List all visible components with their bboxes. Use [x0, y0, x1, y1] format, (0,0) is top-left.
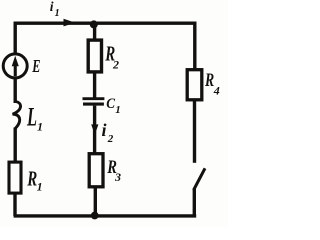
svg-text:1: 1 [37, 120, 43, 134]
svg-text:2: 2 [112, 57, 119, 71]
svg-text:L: L [26, 102, 37, 131]
svg-text:1: 1 [55, 8, 60, 19]
svg-text:2: 2 [107, 133, 114, 145]
svg-text:R: R [204, 70, 214, 91]
svg-text:i: i [50, 0, 54, 14]
svg-text:1: 1 [37, 180, 43, 194]
svg-text:1: 1 [115, 104, 121, 116]
svg-text:E: E [32, 56, 41, 76]
svg-text:i: i [102, 120, 107, 140]
svg-text:3: 3 [114, 170, 121, 184]
svg-text:4: 4 [213, 84, 220, 98]
